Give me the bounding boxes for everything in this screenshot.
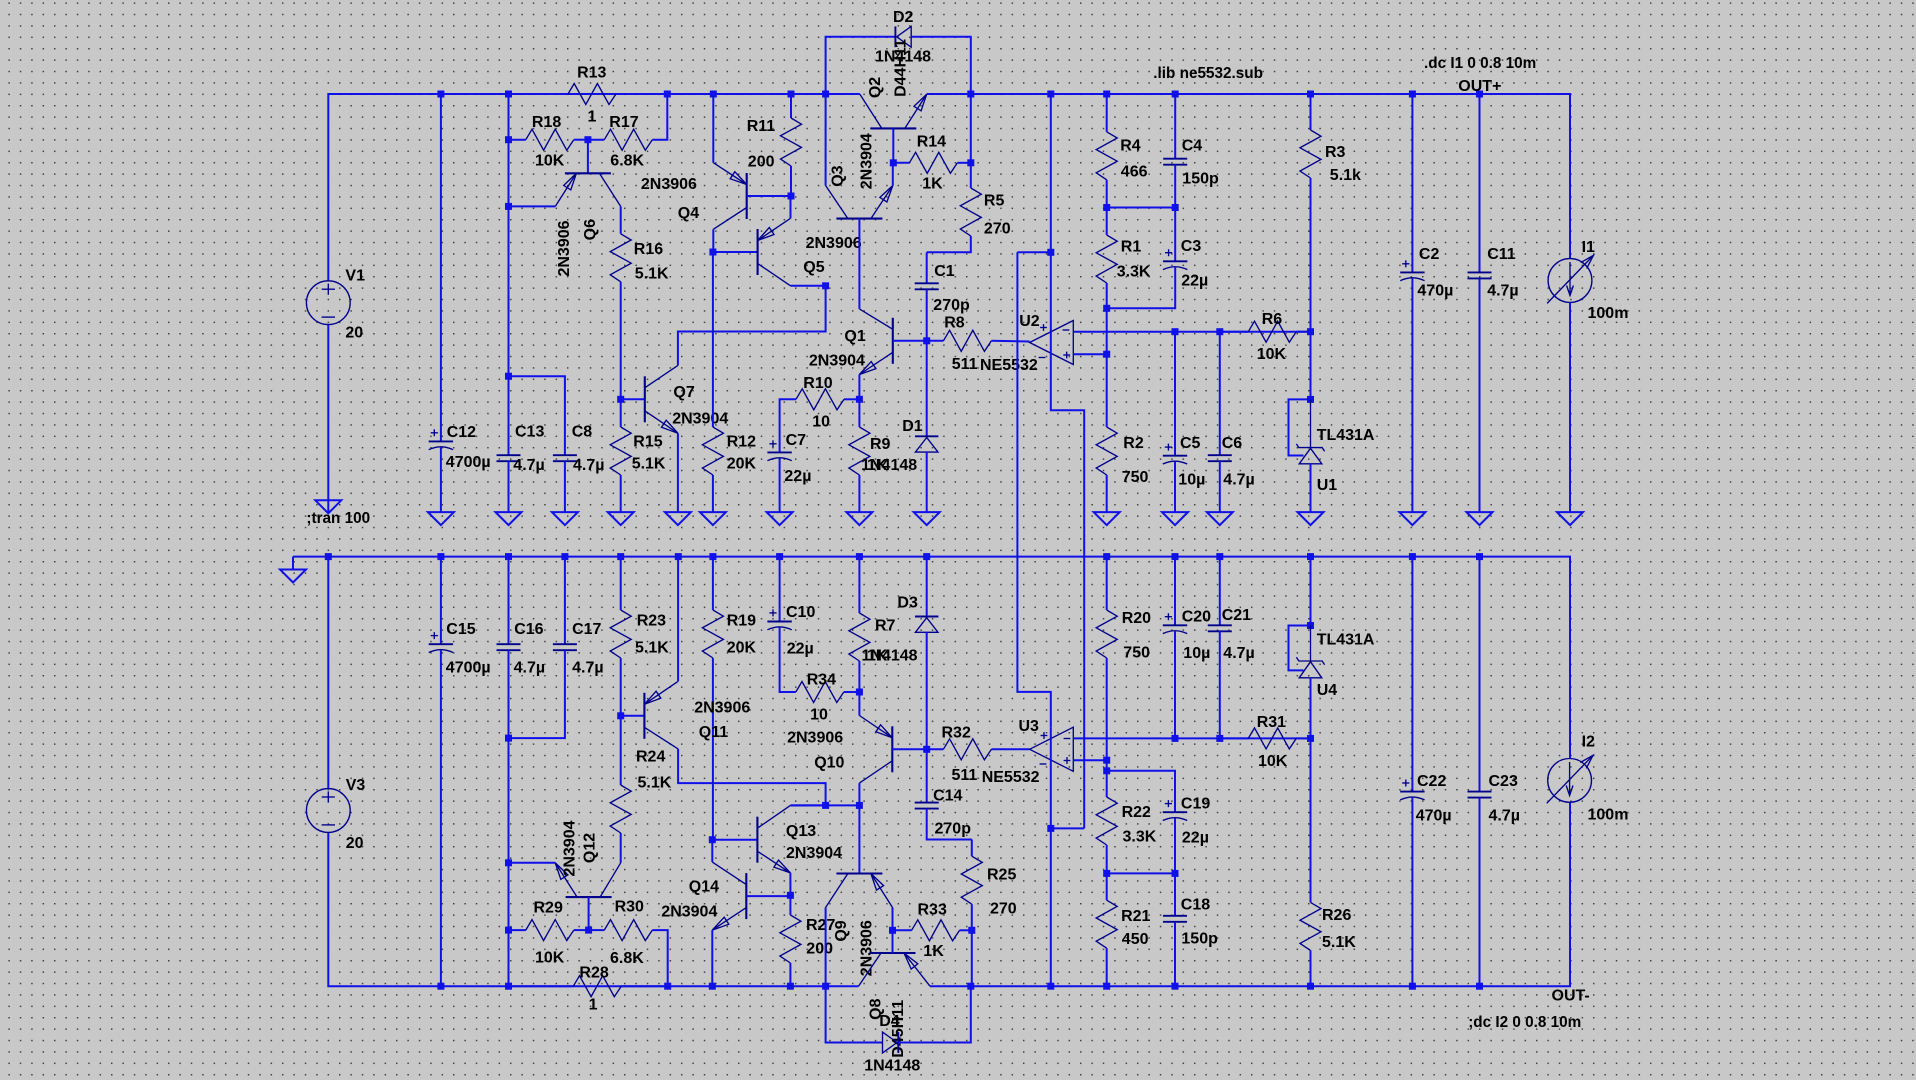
capacitor C17 <box>553 643 577 645</box>
svg-text:C13: C13 <box>515 424 544 441</box>
svg-text:C14: C14 <box>933 788 962 805</box>
junction <box>1172 328 1179 335</box>
svg-text:Q2: Q2 <box>867 77 884 98</box>
wire junction to C18 <box>1174 873 1176 915</box>
wire C12 to ground <box>440 447 442 512</box>
wire junction to C3 <box>1174 208 1176 262</box>
junction <box>505 373 512 380</box>
resistor R33 <box>912 920 960 941</box>
ground at R12 <box>700 512 726 525</box>
junction <box>1103 204 1110 211</box>
svg-text:R9: R9 <box>870 436 891 453</box>
wire mid rail to C22 <box>1411 557 1413 792</box>
resistor R29 <box>526 920 574 941</box>
svg-text:10µ: 10µ <box>1178 472 1205 489</box>
wire Q6 base lead <box>587 140 589 174</box>
junction <box>889 927 896 934</box>
svg-text:10K: 10K <box>535 153 565 170</box>
ground at R15 <box>608 512 634 525</box>
capacitor C12 <box>429 440 453 442</box>
svg-text:3.3K: 3.3K <box>1117 264 1151 281</box>
svg-text:C16: C16 <box>514 621 543 638</box>
wire mid ground rail <box>293 557 1570 759</box>
svg-text:OUT-: OUT- <box>1552 988 1590 1005</box>
svg-text:R14: R14 <box>917 134 946 151</box>
wire mid rail to R7 <box>858 557 860 613</box>
junction <box>1103 767 1110 774</box>
wire junction to Q10 emitter <box>858 692 860 716</box>
svg-text:D4: D4 <box>879 1013 900 1030</box>
svg-text:2N3906: 2N3906 <box>694 700 750 717</box>
capacitor C18 <box>1163 915 1187 917</box>
junction <box>890 159 897 166</box>
svg-text:C4: C4 <box>1182 138 1203 155</box>
ground at C11 <box>1467 512 1493 525</box>
junction <box>1409 91 1416 98</box>
wire junction to R9 <box>858 399 860 427</box>
junction <box>923 746 930 753</box>
svg-text:511: 511 <box>952 356 978 373</box>
svg-text:4.7µ: 4.7µ <box>1489 808 1520 825</box>
wire IN+ to R2 <box>1106 354 1108 427</box>
junction <box>585 927 592 934</box>
junction <box>1307 91 1314 98</box>
svg-text:100m: 100m <box>1588 305 1629 322</box>
wire U3 power column to bottom rail <box>1050 727 1052 986</box>
wire U4 anode to junction <box>1310 678 1312 739</box>
junction <box>923 337 930 344</box>
svg-text:4.7µ: 4.7µ <box>1223 472 1254 489</box>
svg-text:6.8K: 6.8K <box>610 153 644 170</box>
junction <box>505 136 512 143</box>
svg-text:U2: U2 <box>1019 313 1040 330</box>
wire junction to R32 <box>927 748 944 750</box>
wire junction to R26 <box>1310 738 1312 902</box>
transistor Q11 <box>643 693 645 739</box>
junction <box>822 91 829 98</box>
svg-text:1K: 1K <box>923 943 944 960</box>
wire Q5 emitter up to junction <box>790 196 792 218</box>
wire C8 to ground <box>564 461 566 512</box>
svg-text:R30: R30 <box>615 899 644 916</box>
svg-text:R15: R15 <box>633 434 662 451</box>
svg-text:10µ: 10µ <box>1183 645 1210 662</box>
wire R12 to ground <box>712 475 714 512</box>
wire rail to R3 <box>1310 94 1312 130</box>
wire rail to Q4 emitter <box>712 94 714 163</box>
transistor Q5 <box>757 229 759 275</box>
svg-text:Q4: Q4 <box>678 205 699 222</box>
svg-text:;dc I2 0 0.8 10m: ;dc I2 0 0.8 10m <box>1468 1014 1581 1031</box>
svg-text:Q14: Q14 <box>689 879 719 896</box>
svg-text:750: 750 <box>1123 645 1150 662</box>
resistor R19 <box>702 610 723 658</box>
svg-text:2N3906: 2N3906 <box>787 730 843 747</box>
wire R16 to Q7 base junction <box>620 282 622 400</box>
svg-text:200: 200 <box>748 154 775 171</box>
junction <box>505 859 512 866</box>
svg-text:C15: C15 <box>446 621 475 638</box>
wire Q1 base lead <box>893 340 927 342</box>
junction <box>709 836 716 843</box>
wire to C1 <box>926 252 928 283</box>
wire R15 to ground <box>620 475 622 512</box>
svg-text:D44H11: D44H11 <box>892 39 909 97</box>
TL431 U1 <box>1310 399 1312 447</box>
junction <box>1307 983 1314 990</box>
junction <box>1172 870 1179 877</box>
wire Q4 base lead <box>747 195 791 197</box>
svg-text:10: 10 <box>810 707 828 724</box>
svg-text:10: 10 <box>812 414 830 431</box>
wire U3 IN+ line <box>1073 759 1106 761</box>
wire junction to D1 <box>926 341 928 437</box>
wire junction to R22 <box>1106 771 1108 797</box>
wire R6 to R3 column <box>1296 331 1310 333</box>
svg-text:R5: R5 <box>984 193 1005 210</box>
wire IN- to C6 <box>1219 332 1221 456</box>
transistor Q2 <box>870 127 916 129</box>
wire Q1 collector to Q3 base <box>858 270 860 309</box>
svg-text:1K: 1K <box>922 175 943 192</box>
wire junction to R17 <box>588 139 604 141</box>
svg-text:C7: C7 <box>786 432 807 449</box>
wire R14 to junction <box>957 162 970 164</box>
wire Q7 emitter to ground <box>677 433 679 512</box>
svg-text:R22: R22 <box>1122 804 1151 821</box>
wire Q14 emitter to rail <box>711 930 713 986</box>
diode D4 <box>897 1032 899 1053</box>
wire Q10 collector down <box>858 783 860 805</box>
resistor R23 <box>610 610 631 658</box>
wire C21 to IN- line <box>1219 631 1221 738</box>
junction <box>325 553 332 560</box>
junction <box>561 553 568 560</box>
resistor R32 <box>943 739 991 760</box>
junction <box>1103 305 1110 312</box>
svg-text:470µ: 470µ <box>1416 808 1452 825</box>
wire I1 to ground <box>1569 302 1571 512</box>
wire mid rail to C15 <box>440 557 442 645</box>
resistor R28 <box>573 976 621 997</box>
svg-text:10K: 10K <box>1258 753 1288 770</box>
wire bottom rail left segment <box>328 832 858 986</box>
resistor R27 <box>780 915 801 963</box>
svg-text:2N3904: 2N3904 <box>786 845 842 862</box>
svg-text:5.1k: 5.1k <box>1330 167 1361 184</box>
junction <box>617 553 624 560</box>
capacitor C23 <box>1468 791 1492 793</box>
svg-text:Q7: Q7 <box>673 384 694 401</box>
voltage source V1 <box>306 281 350 325</box>
ground at I1 <box>1557 512 1583 525</box>
wire rail up to D2 <box>826 37 896 94</box>
wire R21 to rail <box>1106 948 1108 986</box>
wire to R25 body <box>971 840 973 857</box>
svg-text:5.1K: 5.1K <box>635 266 669 283</box>
capacitor C4 <box>1163 158 1187 160</box>
svg-text:4.7µ: 4.7µ <box>572 660 603 677</box>
svg-text:R31: R31 <box>1257 714 1286 731</box>
wire Q13 base lead <box>712 839 757 841</box>
wire Q6 collector to R16 <box>620 206 622 233</box>
wire C23 to rail <box>1479 798 1481 987</box>
wire mid rail to C17 <box>564 557 566 645</box>
junction <box>1047 983 1054 990</box>
wire junction to R21 <box>1106 873 1108 900</box>
wire Q3 emitter up <box>892 163 894 186</box>
wire R24 to Q12 collector <box>620 833 622 863</box>
svg-text:5.1K: 5.1K <box>638 775 672 792</box>
wire C2 to ground <box>1411 278 1413 512</box>
wire R33 to junction <box>960 929 972 931</box>
svg-text:R23: R23 <box>637 613 666 630</box>
transistor Q4 <box>746 173 748 219</box>
svg-text:R26: R26 <box>1322 907 1351 924</box>
junction <box>437 983 444 990</box>
svg-text:.lib ne5532.sub: .lib ne5532.sub <box>1153 65 1263 82</box>
junction <box>505 735 512 742</box>
transistor Q13 <box>756 817 758 863</box>
svg-text:R16: R16 <box>634 241 663 258</box>
junction <box>1307 553 1314 560</box>
wire U4 feedback loop <box>1289 626 1311 671</box>
capacitor C7 <box>767 451 791 453</box>
svg-text:C5: C5 <box>1180 435 1201 452</box>
wire C14 to R25 <box>927 809 972 840</box>
wire mid rail to C21 <box>1219 557 1221 626</box>
wire R10 to C7 <box>780 399 796 452</box>
wire C20 to IN- line <box>1174 631 1176 738</box>
junction <box>788 193 795 200</box>
svg-text:1: 1 <box>589 997 598 1014</box>
junction <box>788 91 795 98</box>
junction <box>1307 328 1314 335</box>
junction <box>822 983 829 990</box>
resistor R34 <box>796 682 844 703</box>
wire to R29 <box>509 929 526 931</box>
svg-text:22µ: 22µ <box>1182 830 1209 847</box>
svg-text:4.7µ: 4.7µ <box>1487 283 1518 300</box>
wire mid rail to V3 <box>327 557 329 789</box>
wire U2 IN+ line <box>1073 353 1106 355</box>
svg-text:R33: R33 <box>918 902 947 919</box>
svg-text:C18: C18 <box>1181 897 1210 914</box>
wire U2 V+ tap <box>1017 251 1050 253</box>
svg-text:150p: 150p <box>1182 171 1219 188</box>
svg-text:V3: V3 <box>346 777 366 794</box>
ground at U1 <box>1298 512 1324 525</box>
wire R30 to bottom rail <box>652 930 667 986</box>
capacitor C3 <box>1163 260 1187 262</box>
wire Q1 emitter down <box>858 375 860 400</box>
svg-text:;tran 100: ;tran 100 <box>306 510 370 527</box>
junction <box>1216 328 1223 335</box>
svg-text:C19: C19 <box>1181 796 1210 813</box>
diode D3 <box>915 616 938 618</box>
wire R5 to C1 top <box>927 236 971 252</box>
svg-text:R34: R34 <box>807 672 836 689</box>
wire R3 to U1 <box>1310 178 1312 399</box>
wire junction to R15 <box>620 399 622 427</box>
transistor Q3 <box>836 218 882 220</box>
junction <box>664 983 671 990</box>
svg-text:466: 466 <box>1121 164 1148 181</box>
wire R29 to junction <box>574 929 589 931</box>
svg-text:C8: C8 <box>572 424 593 441</box>
junction <box>1103 553 1110 560</box>
junction <box>1172 204 1179 211</box>
wire junction to R24 <box>620 716 622 785</box>
svg-text:Q3: Q3 <box>830 165 847 186</box>
resistor R31 <box>1248 728 1296 749</box>
svg-text:200: 200 <box>806 941 833 958</box>
svg-text:Q6: Q6 <box>582 219 599 240</box>
svg-text:10K: 10K <box>535 950 565 967</box>
svg-text:Q12: Q12 <box>581 833 598 863</box>
wire Q11 emitter to mid rail <box>677 557 679 682</box>
svg-text:R18: R18 <box>532 114 561 131</box>
svg-text:U4: U4 <box>1317 682 1338 699</box>
wire R11 to junction <box>790 166 792 196</box>
resistor R21 <box>1096 900 1117 948</box>
wire column to bottom rail <box>508 738 510 986</box>
svg-text:C1: C1 <box>934 263 955 280</box>
wire Q14 base lead <box>746 895 790 897</box>
wire junction to R27 <box>789 895 791 915</box>
wire junction to C14 <box>926 749 928 802</box>
junction <box>617 712 624 719</box>
wire mid rail to D3 <box>926 557 928 617</box>
wire C6 to ground <box>1219 461 1221 512</box>
ground at Q7 emitter <box>665 512 691 525</box>
svg-text:4.7µ: 4.7µ <box>1223 645 1254 662</box>
capacitor C22 <box>1400 791 1424 793</box>
junction <box>1103 351 1110 358</box>
transistor Q1 <box>892 318 894 364</box>
junction <box>856 689 863 696</box>
wire R2 to ground <box>1106 475 1108 512</box>
svg-text:R12: R12 <box>727 434 756 451</box>
svg-text:22µ: 22µ <box>784 468 811 485</box>
svg-text:Q5: Q5 <box>803 259 824 276</box>
op-amp U2 <box>1030 321 1074 365</box>
resistor R24 <box>610 785 631 833</box>
resistor R12 <box>702 427 723 475</box>
wire mid rail to U4 <box>1310 557 1312 626</box>
wire U2 IN- line <box>1073 331 1310 333</box>
junction <box>709 249 716 256</box>
svg-text:R27: R27 <box>806 917 835 934</box>
voltage source V3 <box>306 789 350 833</box>
ground at C12 <box>428 512 454 525</box>
resistor R3 <box>1300 130 1321 178</box>
diode D2 <box>894 26 896 47</box>
wire R17 to rail <box>652 94 667 140</box>
svg-text:R19: R19 <box>727 613 756 630</box>
wire C19 to junction <box>1174 818 1176 873</box>
svg-text:R11: R11 <box>747 118 776 135</box>
svg-text:1: 1 <box>588 109 597 126</box>
wire Q3 base lead <box>858 219 860 270</box>
svg-text:4.7µ: 4.7µ <box>513 457 544 474</box>
svg-text:R6: R6 <box>1262 311 1283 328</box>
capacitor C8 <box>553 454 577 456</box>
wire R1 to IN+ junction <box>1106 283 1108 354</box>
wire junction to R12 <box>712 252 714 427</box>
resistor R25 <box>961 856 982 904</box>
resistor R18 <box>526 129 574 150</box>
wire R13 to rail <box>616 93 667 95</box>
resistor R2 <box>1096 427 1117 475</box>
junction <box>1476 553 1483 560</box>
wire R23 to Q11 base junction <box>620 658 622 716</box>
svg-text:4700µ: 4700µ <box>446 454 491 471</box>
wire Q12 base lead <box>588 897 590 930</box>
wire U3 IN- line <box>1073 737 1310 739</box>
wire mid rail to C20 <box>1174 557 1176 626</box>
ground at R2 <box>1094 512 1120 525</box>
wire Q8 base lead <box>892 930 894 953</box>
ground at V1 <box>315 500 341 513</box>
wire C18 to rail <box>1174 922 1176 986</box>
svg-text:D3: D3 <box>897 595 918 612</box>
wire Q9 collector to rail <box>825 908 827 987</box>
svg-text:R8: R8 <box>944 315 965 332</box>
junction <box>709 983 716 990</box>
junction <box>1409 983 1416 990</box>
wire Q6 emitter to column <box>509 205 556 207</box>
wire junction to R8 <box>927 340 944 342</box>
junction <box>1307 622 1314 629</box>
resistor R1 <box>1096 235 1117 283</box>
transistor Q9 <box>836 872 882 874</box>
wire R18 to junction <box>574 139 588 141</box>
svg-text:U3: U3 <box>1019 718 1040 735</box>
wire rail to R13 <box>509 93 569 95</box>
wire junction to R14 <box>893 162 909 164</box>
junction <box>1103 983 1110 990</box>
svg-text:20: 20 <box>345 325 363 342</box>
junction <box>617 396 624 403</box>
svg-text:2N3906: 2N3906 <box>556 220 573 276</box>
ground at C6 <box>1207 512 1233 525</box>
wire interconnect to U3 V- <box>1051 827 1084 829</box>
ground at D1 <box>914 512 940 525</box>
svg-text:D2: D2 <box>893 9 914 26</box>
wire rail to C12 <box>440 94 442 441</box>
wire R34 to junction <box>844 691 860 693</box>
svg-text:C2: C2 <box>1419 246 1440 263</box>
svg-text:U1: U1 <box>1317 477 1338 494</box>
junction <box>1172 553 1179 560</box>
junction <box>1307 396 1314 403</box>
wire D2 to rail <box>911 37 971 94</box>
svg-text:R32: R32 <box>942 725 971 742</box>
wire Q3 collector up (rail column) <box>825 94 827 186</box>
svg-text:Q9: Q9 <box>833 920 850 941</box>
svg-text:2N3906: 2N3906 <box>641 176 697 193</box>
svg-text:20K: 20K <box>727 640 757 657</box>
wire C17 jog to column <box>509 650 565 738</box>
junction <box>923 553 930 560</box>
wire mid rail to C10 <box>779 557 781 622</box>
svg-text:I2: I2 <box>1582 734 1595 751</box>
svg-text:R13: R13 <box>577 65 606 82</box>
svg-text:470µ: 470µ <box>1417 283 1453 300</box>
wire mid rail ground stem <box>292 557 294 570</box>
wire top rail left segment <box>328 94 860 281</box>
